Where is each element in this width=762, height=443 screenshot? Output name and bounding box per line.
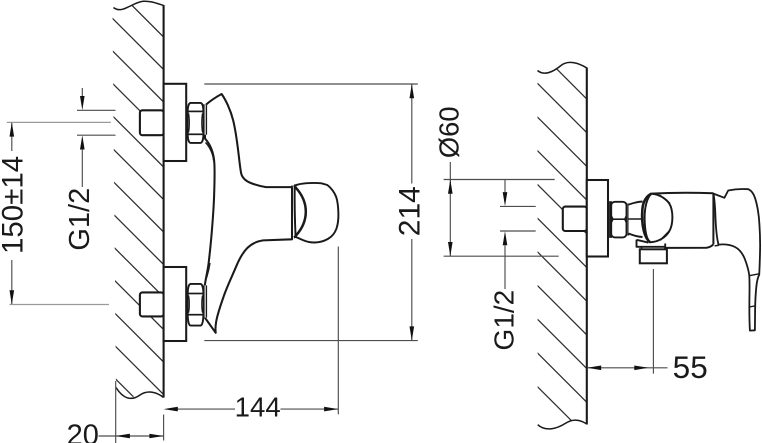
svg-text:150±14: 150±14 bbox=[0, 156, 30, 254]
dimension 144: line + arrows bbox=[178, 408, 236, 410]
wall face line (right view) bbox=[586, 68, 588, 425]
wall top break line (left view) bbox=[114, 1, 164, 9]
shower hose outlet (side view) bbox=[637, 240, 666, 247]
top hex nut (left view) bbox=[188, 103, 204, 143]
body highlight arc below top nut bbox=[206, 143, 214, 161]
top connection washer (left view) bbox=[204, 104, 207, 134]
svg-text:55: 55 bbox=[673, 349, 708, 385]
conical joint (side view) bbox=[629, 202, 643, 238]
Ø60 extension lines bbox=[444, 179, 555, 181]
top supply pipe stub (left view) bbox=[140, 110, 164, 135]
wall face extension line below (left) bbox=[163, 415, 165, 441]
bottom supply pipe stub (left view) bbox=[140, 292, 164, 316]
wall hatching (left view) bbox=[105, 0, 164, 427]
20 extension line (wall back) bbox=[115, 381, 117, 443]
handle knob stub joint line (front view) bbox=[291, 186, 293, 240]
G1/2 dimension arrows (left view) bbox=[81, 88, 83, 97]
svg-text:144: 144 bbox=[235, 391, 281, 422]
washer between nut and cone (side view) bbox=[627, 204, 629, 236]
svg-text:214: 214 bbox=[394, 186, 427, 236]
body highlight arc above bottom nut bbox=[205, 263, 210, 280]
knob face (side view, lens shape) bbox=[645, 194, 673, 243]
dimension 55: line + arrows bbox=[587, 367, 667, 369]
svg-text:G1/2: G1/2 bbox=[488, 290, 519, 351]
knob cap face edge arc (front view) bbox=[294, 185, 306, 237]
faucet body (front view) bbox=[205, 94, 292, 333]
214 extension line bottom bbox=[204, 340, 417, 342]
escutcheon plate (side view) bbox=[587, 180, 608, 257]
bottom escutcheon plate (left view) bbox=[164, 267, 187, 341]
Ø60 dimension line + arrows bbox=[449, 162, 451, 180]
214 extension line top bbox=[204, 83, 417, 85]
handle knob cap (front view) bbox=[295, 183, 339, 243]
G1/2 extension lines (right view) bbox=[500, 205, 536, 207]
knob facet chords (side view) bbox=[660, 195, 670, 203]
washer between escutcheon and nut (side view) bbox=[610, 201, 611, 238]
knob outer rim arc (side view, thick) bbox=[642, 194, 651, 243]
svg-text:G1/2: G1/2 bbox=[64, 188, 96, 251]
center line of top pipe (gray) bbox=[7, 121, 111, 123]
G1/2 dimension arrows (right view) bbox=[504, 180, 506, 192]
G1/2 extension lines (left view) bbox=[77, 109, 116, 111]
wall face line (left view) bbox=[163, 5, 165, 398]
hose outlet center extension line bbox=[652, 269, 654, 374]
wall hatching (right view) bbox=[532, 11, 587, 437]
hex nut (side view) bbox=[611, 202, 626, 238]
top escutcheon plate (left view) bbox=[164, 84, 187, 161]
center line of bottom pipe (gray) bbox=[10, 304, 110, 306]
bottom hex nut (left view) bbox=[188, 284, 204, 326]
wall bottom break line (left view) bbox=[116, 388, 164, 399]
supply pipe stub (side view) bbox=[563, 207, 587, 231]
dimension 150±14: line + arrows bbox=[11, 123, 13, 151]
svg-text:20: 20 bbox=[67, 419, 99, 443]
barrel body (side view) bbox=[651, 193, 713, 248]
dimension 214: vertical line + arrows bbox=[411, 85, 413, 184]
wall bottom break line (right view) bbox=[538, 420, 587, 429]
144 extension line (right, from knob) bbox=[337, 247, 339, 415]
dimension 20: line + arrows bbox=[99, 435, 164, 437]
wall top break line (right view) bbox=[538, 62, 587, 73]
bottom connection washer (left view) bbox=[204, 285, 207, 317]
svg-text:Ø60: Ø60 bbox=[434, 106, 465, 158]
lever handle (side view) bbox=[713, 189, 760, 331]
lever crease lines bbox=[749, 274, 759, 276]
